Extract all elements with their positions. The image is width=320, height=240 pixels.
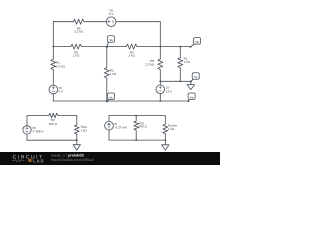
svg-text:-9.27 mA: -9.27 mA — [114, 125, 127, 129]
voltage source V8 — [23, 126, 31, 134]
labels main circuit — [56, 9, 191, 94]
ground main — [187, 81, 194, 89]
wire Rnorton bottom — [164, 135, 166, 141]
node bus-x160 — [159, 80, 161, 82]
resistor R2 — [70, 44, 83, 49]
bottom wire — [53, 100, 188, 102]
svg-text:1 kΩ: 1 kΩ — [73, 54, 80, 58]
node bottom-x160 — [159, 100, 161, 102]
wire R2 to node A — [83, 46, 126, 48]
wire bus to V7 — [159, 81, 161, 85]
svg-text:12 V: 12 V — [166, 90, 173, 94]
wire V6 to bottom wire — [52, 94, 54, 101]
wire thev bottom — [27, 139, 77, 141]
wire R9 to right corner — [59, 115, 77, 117]
wire V8 bottom — [26, 134, 28, 140]
svg-text:LAB: LAB — [33, 158, 45, 163]
ground norton — [162, 140, 169, 150]
svg-text:840 Ω: 840 Ω — [49, 122, 58, 126]
wire right col top — [76, 116, 78, 125]
wire norton right col — [164, 116, 166, 124]
wire R10 top — [135, 116, 137, 121]
svg-text:-7.788 V: -7.788 V — [32, 130, 44, 134]
wire I source bottom — [108, 130, 110, 140]
resistor Rnorton — [163, 123, 168, 134]
wire R6 to V5 — [85, 21, 106, 23]
wire V8 top — [26, 116, 28, 126]
svg-text:Vo: Vo — [109, 96, 113, 99]
wire Rthev bottom — [76, 135, 78, 140]
wire thev top-left — [27, 115, 48, 117]
svg-text:http://circuitlab.com/c7t86un/: http://circuitlab.com/c7t86un/ — [51, 158, 94, 162]
wire x160 row2 down to R8 — [159, 47, 161, 58]
resistor R6 — [72, 19, 85, 24]
node bus-x180 — [179, 80, 181, 82]
resistor R10 — [134, 120, 139, 131]
node norton r10 top — [135, 115, 137, 117]
resistor R9 — [48, 113, 59, 118]
node norton ground — [164, 139, 166, 141]
wire x180 row2 down to RL — [179, 47, 181, 57]
wire norton top — [109, 115, 165, 117]
logo zigzag — [12, 159, 24, 162]
svg-text:Vn: Vn — [190, 96, 194, 99]
wire left column down to R1 — [52, 47, 54, 59]
svg-text:1 kΩ: 1 kΩ — [80, 128, 87, 132]
resistor R4 — [125, 44, 138, 49]
wire norton bottom — [109, 139, 165, 141]
svg-text:1 kΩ: 1 kΩ — [129, 54, 136, 58]
flag bottom right — [188, 93, 196, 102]
node bottom-x107 — [106, 100, 108, 102]
wire row2 left to R2 — [53, 46, 70, 48]
node row2-left — [52, 46, 54, 48]
wire R3 to bottom wire — [106, 79, 108, 101]
junction dots — [52, 46, 181, 102]
voltage source V6 — [49, 85, 58, 94]
svg-text:1 kΩ: 1 kΩ — [110, 72, 117, 76]
current source I6 — [105, 121, 114, 130]
resistor R8 — [158, 58, 163, 71]
node row2-x160 — [159, 46, 161, 48]
wire right vertical top to row2 — [159, 22, 161, 47]
resistor R1 — [51, 58, 56, 71]
flag node A — [107, 36, 115, 48]
wire left vertical top to row2 — [52, 22, 54, 47]
wire RL to bus — [179, 69, 181, 82]
flag bus right — [190, 73, 199, 83]
wire R1 to V6 — [52, 71, 54, 85]
flag node B right — [190, 38, 201, 48]
svg-text:8 V: 8 V — [109, 12, 115, 16]
svg-text:2.2 kΩ: 2.2 kΩ — [74, 30, 84, 34]
svg-text:Vc: Vc — [194, 76, 198, 79]
node norton r10 bottom — [135, 139, 137, 141]
svg-text:Va: Va — [109, 39, 113, 42]
wire I source top — [108, 116, 110, 122]
wire top-left corner to R6 — [53, 21, 72, 23]
flag bottom middle — [106, 93, 114, 102]
resistor R3 — [104, 67, 109, 80]
bus wire y81 — [160, 80, 191, 82]
logo orange box — [28, 159, 31, 162]
svg-text:susan_z / prelab03: susan_z / prelab03 — [51, 154, 84, 158]
svg-text:2.2 kΩ: 2.2 kΩ — [145, 63, 155, 67]
svg-text:840 Ω: 840 Ω — [139, 125, 148, 129]
wire node A down to R3 — [106, 47, 108, 67]
svg-text:Vb: Vb — [195, 41, 199, 44]
svg-text:1 kΩ: 1 kΩ — [168, 127, 175, 131]
svg-text:5 V: 5 V — [58, 90, 64, 94]
wire V7 to bottom wire — [159, 94, 161, 101]
svg-text:1 kΩ: 1 kΩ — [184, 60, 191, 64]
ground thev — [73, 140, 80, 150]
node thev ground — [76, 139, 78, 141]
wire R8 to bus — [159, 71, 161, 82]
wire R4 to right nodes — [138, 46, 190, 48]
voltage source V5 — [106, 17, 116, 27]
node A — [106, 46, 108, 48]
node row2-x180 — [179, 46, 181, 48]
wire R10 bottom — [135, 131, 137, 140]
resistor Rthev — [74, 124, 79, 135]
resistor RL — [178, 57, 183, 69]
svg-text:2.2 kΩ: 2.2 kΩ — [56, 65, 66, 69]
wire V5 to top-right corner — [116, 21, 160, 23]
voltage source V7 — [156, 85, 165, 94]
